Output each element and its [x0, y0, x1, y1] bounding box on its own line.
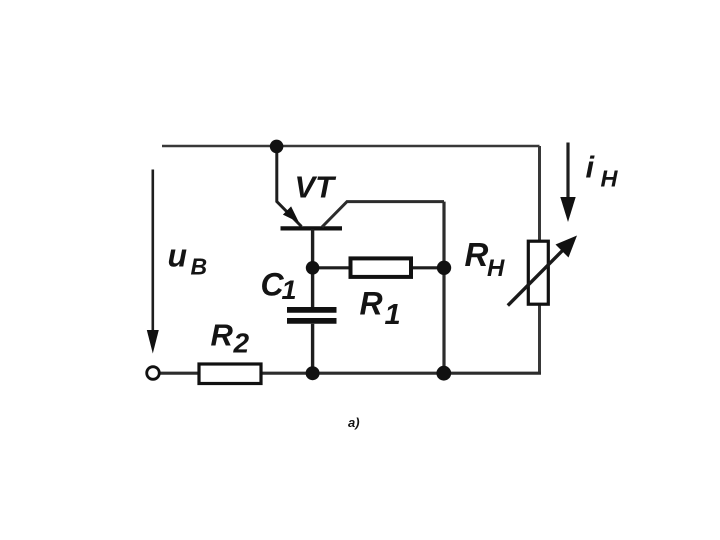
wire right vertical lower [538, 303, 541, 375]
label R1 [360, 285, 401, 331]
svg-text:R: R [360, 285, 383, 321]
svg-text:1: 1 [385, 299, 401, 331]
transistor VT base bar [281, 226, 343, 230]
resistor RH rheostat body [528, 241, 548, 304]
wire C1 lower lead [311, 324, 314, 373]
wire collector vertical down [442, 202, 445, 374]
label VT [295, 170, 338, 205]
resistor R2 [199, 364, 261, 384]
wire top rail [162, 145, 540, 148]
svg-text:R: R [465, 236, 489, 273]
svg-text:1: 1 [282, 275, 297, 305]
transistor VT collector lead [322, 202, 444, 227]
wire right vertical upper [538, 146, 541, 243]
label C1 [261, 266, 297, 305]
label iH [586, 150, 619, 192]
wire R1 link between nodes [313, 266, 444, 269]
terminal input open circle [147, 367, 160, 380]
node junction bottom center [306, 366, 320, 380]
transistor VT emitter arrowhead [283, 206, 299, 222]
label R2 [211, 317, 250, 358]
svg-text:Н: Н [601, 165, 619, 191]
arrow iH head [560, 197, 575, 222]
capacitor C1 bottom plate [287, 318, 337, 324]
resistor RH rheostat arrow shaft [508, 245, 568, 306]
svg-text:VT: VT [295, 170, 338, 205]
svg-text:Н: Н [487, 255, 505, 282]
node junction C1-R1 left [306, 261, 320, 275]
svg-text:В: В [191, 253, 208, 279]
svg-text:а): а) [348, 415, 360, 430]
node junction top rail [270, 140, 284, 154]
svg-text:2: 2 [233, 328, 250, 359]
arrow iH shaft [566, 143, 569, 201]
label RH [465, 236, 506, 282]
node junction bottom right [436, 366, 451, 381]
arrow uB shaft [152, 170, 155, 335]
node junction R1 right [437, 261, 451, 275]
resistor RH rheostat arrowhead [556, 236, 578, 258]
wire bottom rail [153, 372, 541, 375]
resistor R1 [351, 258, 412, 277]
wire base lead down to C1 [311, 229, 314, 308]
label uB [168, 238, 208, 280]
svg-text:i: i [586, 150, 596, 185]
capacitor C1 top plate [287, 307, 337, 313]
svg-text:u: u [168, 238, 188, 274]
svg-text:R: R [211, 317, 234, 352]
wire emitter lead from top junction [277, 146, 302, 227]
arrow uB head [147, 330, 159, 354]
caption a) [348, 415, 360, 430]
